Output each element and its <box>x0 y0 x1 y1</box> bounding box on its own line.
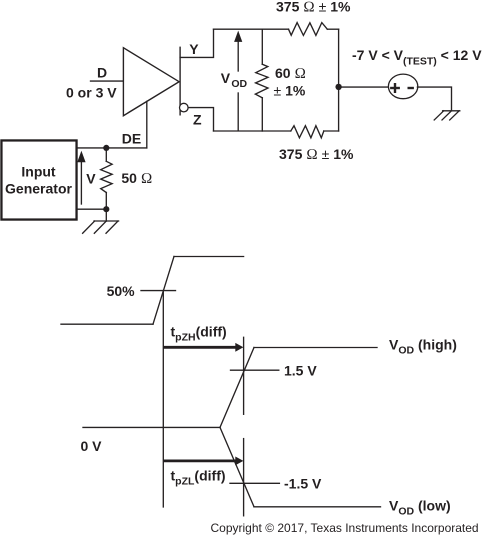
svg-text:± 1%: ± 1% <box>274 83 306 99</box>
wire Y output <box>180 29 213 57</box>
wire bottom net left <box>214 130 291 132</box>
wire to ground 1 <box>105 209 107 221</box>
svg-text:D: D <box>97 64 107 80</box>
VOD low line <box>254 506 381 508</box>
svg-text:-1.5 V: -1.5 V <box>284 476 322 492</box>
svg-text:50 Ω: 50 Ω <box>121 170 152 187</box>
svg-text:375 Ω ± 1%: 375 Ω ± 1% <box>276 0 351 16</box>
svg-text:Z: Z <box>193 112 202 128</box>
vertical reference line 2 upper <box>243 337 245 414</box>
VOD rising ramp <box>220 348 254 428</box>
svg-text:Copyright © 2017, Texas Instru: Copyright © 2017, Texas Instruments Inco… <box>211 521 479 535</box>
VOD high line <box>254 347 377 349</box>
wire dot to resistor top <box>105 148 107 161</box>
svg-text:0 or 3 V: 0 or 3 V <box>66 85 117 101</box>
V arrow shaft <box>80 160 82 204</box>
input generator box <box>1 140 76 219</box>
driver output bar <box>179 47 181 115</box>
VOD arrow head <box>234 31 242 42</box>
svg-text:50%: 50% <box>107 283 136 299</box>
input low line <box>61 323 153 325</box>
svg-text:tpZL(diff): tpZL(diff) <box>171 468 226 488</box>
vertical reference line 1 <box>162 291 164 507</box>
svg-text:0 V: 0 V <box>81 438 103 454</box>
wire box top to DE <box>77 147 147 149</box>
svg-text:Input: Input <box>21 163 56 179</box>
svg-text:-7 V < V(TEST) < 12 V: -7 V < V(TEST) < 12 V <box>352 47 482 68</box>
0V line <box>83 426 220 428</box>
svg-text:Generator: Generator <box>5 181 72 197</box>
wire node to source <box>339 86 389 88</box>
resistor 375 ohm top <box>289 23 328 36</box>
1.5V tick <box>231 369 279 371</box>
svg-text:60 Ω: 60 Ω <box>275 65 306 82</box>
input rising ramp <box>153 257 174 325</box>
node dot test junction <box>335 84 341 90</box>
node dot DE junction <box>103 145 109 151</box>
vertical reference line 2 lower <box>243 439 245 516</box>
ground 1 <box>83 221 119 233</box>
node dot bottom junction <box>103 206 109 212</box>
tpZH arrow <box>163 346 236 349</box>
wire source to ground 2 <box>417 87 451 111</box>
VOD arrow shaft <box>237 42 239 71</box>
svg-text:Y: Y <box>189 41 199 57</box>
svg-text:375 Ω ± 1%: 375 Ω ± 1% <box>279 146 354 163</box>
svg-text:DE: DE <box>122 131 141 147</box>
timing diagram lines <box>61 257 381 516</box>
svg-text:VOD (low): VOD (low) <box>389 498 451 518</box>
wire bottom net right <box>324 130 339 132</box>
source plus sign <box>391 84 398 92</box>
wire box bottom <box>77 208 107 210</box>
wire right vertical <box>338 29 340 131</box>
driver U1 triangle <box>123 48 179 116</box>
wire DE vertical <box>146 101 148 147</box>
wire top net right <box>327 28 338 30</box>
tpZL arrow <box>163 459 236 462</box>
resistor 375 ohm bottom <box>291 126 324 138</box>
svg-text:OD: OD <box>231 78 247 90</box>
resistor 50 ohm <box>101 161 112 192</box>
50% tick <box>141 290 176 292</box>
svg-text:tpZH(diff): tpZH(diff) <box>171 324 227 344</box>
wire resistor bottom <box>105 193 107 210</box>
wire top net left <box>214 28 289 30</box>
wire mid vertical top <box>261 29 263 64</box>
V arrow head <box>77 151 85 162</box>
source minus sign <box>409 87 413 89</box>
inversion bubble Z <box>180 103 189 112</box>
input high line <box>174 256 244 258</box>
svg-text:VOD (high): VOD (high) <box>389 337 457 357</box>
wire mid vertical bottom <box>261 98 263 131</box>
svg-text:1.5 V: 1.5 V <box>284 362 317 378</box>
VOD falling ramp <box>220 427 254 506</box>
svg-text:V: V <box>221 70 231 86</box>
wire Z output <box>188 108 213 131</box>
source V(TEST) <box>388 74 417 99</box>
svg-text:V: V <box>86 170 96 186</box>
resistor 60 ohm <box>255 64 268 98</box>
-1.5V tick <box>230 482 279 484</box>
wire D input <box>91 80 124 82</box>
ground 2 <box>434 111 460 120</box>
